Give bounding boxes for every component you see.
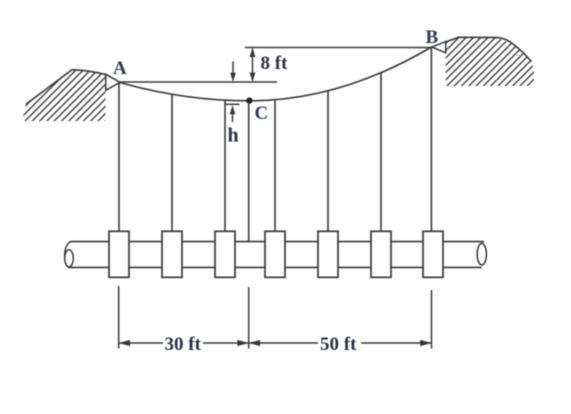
support pin at A bbox=[106, 74, 120, 90]
svg-text:C: C bbox=[255, 103, 269, 124]
clamp 7 bbox=[423, 231, 443, 277]
svg-text:B: B bbox=[426, 27, 439, 48]
witness line through C (upper) bbox=[248, 104, 250, 241]
h dimension tick at level C bbox=[226, 103, 240, 105]
arrowhead left of 50 ft bbox=[249, 340, 260, 346]
arrowhead right of 30 ft bbox=[237, 340, 248, 346]
dimension line 30 ft segment left bbox=[119, 342, 163, 344]
svg-text:8 ft: 8 ft bbox=[261, 53, 289, 74]
clamp 6 bbox=[371, 231, 391, 277]
clamp 1 bbox=[109, 231, 129, 277]
witness line below hanger 7 bbox=[431, 290, 433, 349]
dimension line 30 ft segment right bbox=[203, 342, 249, 344]
left hill hatching bbox=[22, 70, 106, 121]
support pin at B bbox=[432, 42, 446, 53]
clamp 5 bbox=[318, 231, 338, 277]
left hill outline bbox=[26, 70, 106, 105]
hanger 7 bbox=[430, 47, 432, 231]
hanger 3 bbox=[224, 100, 226, 231]
arrowhead left of 30 ft bbox=[119, 340, 130, 346]
dimension line 50 ft segment right bbox=[361, 342, 432, 344]
node C dot bbox=[246, 97, 252, 103]
pipe left end cap bbox=[65, 242, 71, 257]
svg-text:A: A bbox=[113, 58, 127, 79]
clamp 2 bbox=[162, 231, 182, 277]
8 ft arrowhead down bbox=[250, 73, 256, 83]
hanger 1 bbox=[118, 82, 120, 231]
h dimension up arrow below tick bbox=[232, 112, 234, 122]
svg-text:h: h bbox=[228, 125, 239, 147]
svg-text:50 ft: 50 ft bbox=[320, 334, 357, 355]
cable ACB bbox=[120, 47, 432, 101]
witness line below hanger 1 bbox=[118, 286, 120, 349]
reference line at level B bbox=[245, 47, 431, 49]
right hill outline bbox=[446, 37, 532, 62]
pipe top line bbox=[70, 241, 484, 243]
pipe right end cap bbox=[477, 243, 486, 265]
svg-text:30 ft: 30 ft bbox=[165, 334, 202, 355]
hanger 4 bbox=[274, 100, 276, 232]
hanger 5 bbox=[327, 91, 329, 232]
hanger 6 bbox=[380, 73, 382, 232]
witness line below C bbox=[248, 287, 250, 349]
pipe bottom line bbox=[68, 266, 482, 268]
right hill hatching bbox=[446, 37, 534, 86]
h dimension down arrow above level-A line bbox=[232, 62, 234, 76]
reference line at level A bbox=[120, 81, 277, 83]
arrowhead right of 50 ft bbox=[420, 340, 431, 346]
hanger 2 bbox=[171, 94, 173, 231]
8 ft arrowhead up bbox=[250, 48, 256, 58]
8 ft dimension line bbox=[252, 49, 254, 81]
clamp 3 bbox=[215, 231, 235, 277]
dimension line 50 ft segment left bbox=[249, 342, 318, 344]
clamp 4 bbox=[265, 231, 285, 277]
